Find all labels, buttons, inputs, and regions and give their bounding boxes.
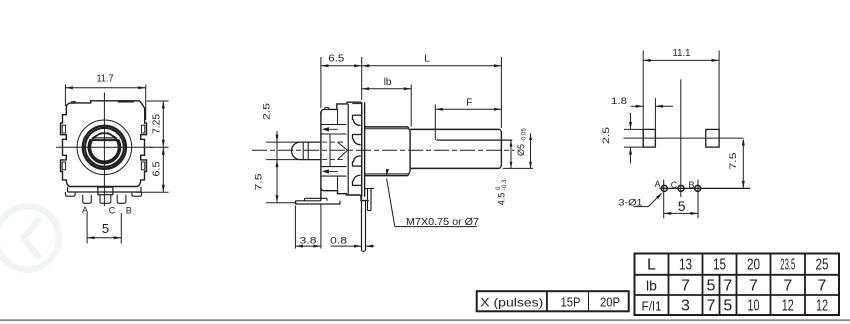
svg-text:C: C — [109, 206, 116, 216]
svg-text:2.5: 2.5 — [262, 103, 273, 120]
svg-text:13: 13 — [679, 257, 692, 274]
dim 0.8 line — [331, 245, 375, 248]
dim 6.5b text — [152, 161, 163, 176]
svg-text:A: A — [654, 179, 660, 189]
top edge bump left — [71, 102, 76, 104]
terminal B — [695, 185, 701, 191]
terminal pin short (side view) — [365, 189, 374, 211]
svg-text:5: 5 — [102, 221, 109, 236]
svg-text:X (pulses): X (pulses) — [480, 296, 543, 310]
dim 6.5 ext left (side) — [320, 57, 322, 108]
data table row L — [647, 257, 829, 274]
svg-text:0.8: 0.8 — [330, 236, 347, 247]
cover front edge (side view) — [347, 104, 349, 195]
svg-text:lb: lb — [384, 77, 392, 88]
data table row lb — [646, 278, 827, 295]
dim 3.8 line — [295, 245, 321, 248]
outer circle (cover opening) — [77, 120, 132, 175]
foot square right — [706, 129, 719, 147]
cover hook 2 — [352, 135, 361, 145]
push shaft collar lines — [303, 142, 308, 160]
svg-text:C: C — [671, 180, 678, 190]
shaft outline — [410, 129, 501, 168]
svg-text:3: 3 — [681, 298, 690, 315]
dim 6.5 line (side) — [321, 64, 362, 67]
knurl ring inner — [85, 128, 124, 167]
center lug — [98, 187, 113, 195]
svg-text:7: 7 — [681, 278, 690, 295]
dim 7.25 text — [152, 114, 163, 134]
push shaft — [292, 142, 321, 160]
dim 7.5 line (right view) — [742, 138, 745, 188]
svg-text:7: 7 — [707, 298, 716, 315]
dim 6.5 text (side) — [328, 54, 344, 65]
dim ext bottom right — [136, 191, 169, 193]
tab line left inner — [654, 98, 656, 147]
label B (front view) — [126, 206, 132, 216]
shaft flat line — [437, 139, 513, 141]
svg-text:15: 15 — [713, 257, 726, 274]
svg-text:7: 7 — [783, 278, 792, 295]
svg-text:6.5: 6.5 — [152, 161, 163, 176]
svg-text:-0.05: -0.05 — [522, 128, 528, 142]
svg-text:3.8: 3.8 — [300, 236, 317, 247]
dim 0.8 text — [330, 236, 347, 247]
dim 4.5 line — [510, 140, 513, 168]
svg-text:10: 10 — [748, 298, 760, 315]
svg-text:25: 25 — [816, 257, 829, 274]
dim lb ext right — [410, 85, 412, 127]
cover hook 4 — [352, 175, 361, 185]
body line (right view) — [624, 137, 744, 139]
svg-text:11.7: 11.7 — [97, 74, 114, 85]
dim 5 text (front) — [102, 221, 109, 236]
dim ext top right — [147, 100, 169, 102]
right tab slot lower — [141, 162, 144, 170]
dim F text — [466, 97, 472, 108]
centerline horizontal (front view) — [56, 146, 153, 148]
svg-text:7.5: 7.5 — [254, 174, 265, 191]
dim dia5 text — [516, 128, 528, 156]
cover hook 1 — [352, 115, 361, 125]
dim 11.7 line — [65, 86, 145, 89]
dim dia5 line — [529, 134, 532, 169]
watermark logo — [0, 207, 59, 270]
svg-text:5: 5 — [678, 198, 686, 214]
dim 5 ext left — [86, 213, 88, 244]
dim 1.8 text — [611, 96, 627, 107]
inner vertical mid top — [337, 109, 339, 124]
dim 5 line (right view) — [664, 212, 698, 215]
svg-text:20P: 20P — [600, 295, 620, 310]
svg-text:20: 20 — [747, 257, 760, 274]
shaft hole D-profile — [89, 140, 121, 163]
dim 2.5 ext lines (side) — [266, 142, 299, 160]
dim 5 text (right view) — [678, 198, 686, 214]
inner vertical rear — [329, 134, 331, 167]
body rear edge (side view) — [320, 112, 322, 201]
svg-text:7: 7 — [749, 278, 758, 295]
label C (front view) — [109, 206, 116, 216]
encoder body outline (front view) — [61, 101, 147, 187]
dim L ext right — [500, 57, 502, 128]
terminal pin long (side view) — [362, 197, 366, 251]
channel upper — [321, 125, 347, 135]
threaded bushing — [365, 127, 411, 176]
dim 2.5/7.5 line (side) — [276, 131, 279, 203]
page separator line — [0, 319, 850, 321]
mount foot right — [132, 192, 142, 196]
pin A (front view) — [83, 195, 92, 204]
dim 11.7 ext right — [145, 85, 147, 121]
mount foot left — [65, 192, 75, 196]
label 3-dia1 leader — [634, 193, 663, 207]
label M7X0.75 — [406, 217, 479, 228]
dim L line — [362, 64, 502, 67]
dim 11.1 text — [673, 48, 691, 59]
svg-text:lb: lb — [646, 278, 657, 294]
pin C (front view) — [100, 195, 111, 204]
dim dia5 ext bottom — [503, 167, 533, 169]
svg-text:F: F — [466, 97, 472, 108]
knurl facet polygon — [90, 133, 119, 162]
svg-text:12: 12 — [782, 298, 794, 315]
centerline (side view) — [252, 149, 515, 151]
knurl ring outer — [83, 126, 126, 169]
dim 7.5 ext bottom (side) — [266, 202, 296, 204]
label B (right view) — [688, 180, 694, 190]
svg-text:2.5: 2.5 — [601, 127, 612, 144]
svg-text:11.1: 11.1 — [673, 48, 691, 59]
dim 4.5 text — [496, 179, 508, 205]
mount plate right edge — [140, 187, 142, 192]
pulse table grid — [477, 291, 629, 311]
data table grid — [635, 254, 840, 316]
channel lower — [321, 167, 347, 177]
center line (right view) — [680, 79, 682, 197]
top edge bump strip — [118, 101, 135, 103]
svg-text:7.5: 7.5 — [728, 153, 739, 170]
svg-text:12: 12 — [816, 298, 828, 315]
dim 1.8 line — [631, 105, 673, 108]
dim 11.1 line — [643, 59, 719, 62]
svg-text:B: B — [126, 206, 132, 216]
terminal C — [678, 185, 684, 191]
left tab slot upper — [62, 125, 65, 133]
terminal A — [661, 185, 667, 191]
cover hook 3 — [352, 156, 361, 166]
dim 2.5 text (side) — [262, 103, 273, 120]
label A (right view) — [654, 179, 660, 189]
dim 11.7 text — [97, 74, 114, 85]
svg-text:1.8: 1.8 — [611, 96, 627, 107]
svg-text:5: 5 — [723, 298, 732, 315]
svg-text:7.25: 7.25 — [152, 114, 163, 134]
terminal row line — [660, 187, 751, 189]
dim 6.5 line — [162, 147, 165, 192]
svg-text:L: L — [647, 257, 656, 274]
dim 5 line (front) — [87, 236, 121, 239]
data table row F/l1 — [642, 298, 829, 315]
label A (front view) — [82, 205, 88, 215]
inner vertical mid bottom — [337, 176, 339, 191]
tab line left outer — [642, 50, 644, 147]
dim lb text — [384, 77, 392, 88]
svg-text:Ø5: Ø5 — [516, 144, 526, 156]
foot square left — [643, 129, 655, 147]
svg-text:B: B — [688, 180, 694, 190]
dim 7.25 line — [162, 101, 165, 147]
label C (right view) — [671, 180, 678, 190]
dim 7.5 text (side) — [254, 174, 265, 191]
dim 3.8 ext right — [320, 204, 322, 249]
svg-text:L: L — [424, 54, 430, 65]
label M7X0.75 underline+leader — [386, 169, 477, 227]
mount plate left edge — [67, 187, 69, 192]
label 3-dia1 — [619, 198, 643, 209]
dim 3.8 text — [300, 236, 317, 247]
internal shaft tip wedge — [338, 142, 348, 160]
dim 7.5 text (right view) — [728, 153, 739, 170]
dim 2.5 line (right view) — [629, 113, 632, 164]
dim ext shared L/6.5 — [361, 57, 363, 100]
shaft hole inner edge — [91, 133, 119, 161]
dim lb line — [362, 87, 412, 90]
svg-text:15P: 15P — [561, 295, 581, 310]
svg-text:23.5: 23.5 — [780, 257, 795, 274]
svg-text:6.5: 6.5 — [328, 54, 344, 65]
dim F line — [435, 108, 501, 111]
svg-text:7: 7 — [723, 278, 732, 295]
bracket plate — [362, 102, 365, 197]
svg-text:-0.3: -0.3 — [502, 179, 508, 190]
pin B (front view) — [117, 195, 126, 204]
body top outline (side view) — [321, 102, 362, 114]
svg-text:4.5: 4.5 — [497, 193, 507, 206]
dim ext mid right — [148, 146, 169, 148]
dim 5 ext right — [120, 213, 122, 244]
mount plate (side view) — [295, 201, 340, 204]
dim 11.7 ext left — [64, 85, 66, 107]
dim 3.8 ext left — [294, 206, 296, 249]
right tab slot upper — [141, 125, 144, 133]
terminal A ext — [663, 180, 665, 219]
dim L text — [424, 54, 430, 65]
svg-text:5: 5 — [707, 278, 716, 295]
shaft hole flat second line — [92, 137, 118, 139]
dim 2.5 ext (right view) — [624, 129, 643, 147]
mount plate bottom — [68, 191, 141, 193]
pulse table text — [480, 295, 620, 310]
dim 2.5 text (right view) — [601, 127, 612, 144]
svg-text:F/l1: F/l1 — [642, 299, 662, 314]
terminal B ext — [697, 180, 699, 219]
body bottom outline (side view) — [321, 188, 369, 201]
mount plate bump (side view) — [305, 198, 328, 201]
dim F ext left — [434, 105, 436, 141]
left tab slot lower — [62, 162, 65, 170]
svg-text:7: 7 — [818, 278, 827, 295]
centerline vertical (front view) — [103, 93, 105, 207]
internal shaft dashes — [322, 142, 346, 160]
tab line right — [718, 50, 720, 147]
